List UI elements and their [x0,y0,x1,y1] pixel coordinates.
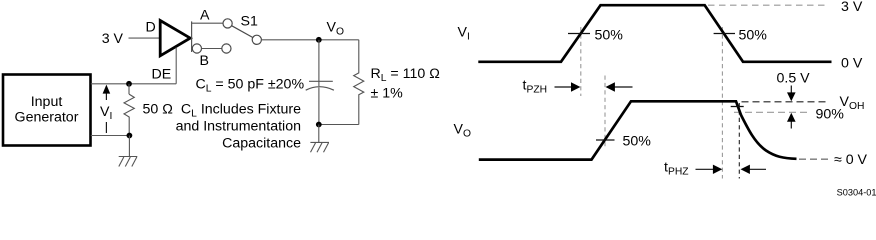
tick: VO decay measure point [731,106,744,108]
svg-text:CL = 50 pF ±20%: CL = 50 pF ±20% [196,77,305,95]
svg-text:≈ 0 V: ≈ 0 V [834,152,868,168]
dashed line: approx 0V level (gray) [799,158,829,160]
wire: output bar at driver tip [191,21,193,52]
waveform VO trace [479,101,797,159]
svg-text:RL = 110 Ω: RL = 110 Ω [371,66,440,84]
svg-text:90%: 90% [816,107,845,123]
node: junction bottom of 50 ohm resistor [126,133,132,139]
svg-text:DE: DE [152,67,172,83]
svg-text:VO: VO [327,20,344,38]
dashed line: VO disable vertical (dark) [738,103,740,179]
svg-text:D: D [146,20,156,36]
wire: 3V to driver input [129,37,160,39]
svg-text:50%: 50% [595,28,624,44]
svg-text:B: B [200,53,209,69]
dashed line: 90% level (gray) [734,111,809,113]
dimension arrow tPZH left [555,82,581,91]
svg-text:tPZH: tPZH [523,77,548,95]
svg-text:50%: 50% [623,134,652,150]
svg-text:and Instrumentation: and Instrumentation [176,119,301,135]
switch S1 arm [232,26,253,38]
arrow VI (input voltage) [98,85,113,133]
svg-text:Capacitance: Capacitance [222,136,301,152]
svg-text:S1: S1 [241,14,258,30]
switch contact B circle (right) [222,44,231,53]
waveform VI trace [478,5,831,62]
dashed line: VO rise 50% vertical (gray) [604,76,606,150]
tick: VI rise 50% [568,33,590,35]
svg-text:Input: Input [31,94,63,110]
dimension arrow tPHZ left [696,165,723,174]
wire: bottom of cap to bottom of RL [319,124,359,126]
svg-text:tPHZ: tPHZ [664,160,689,178]
svg-text:VI: VI [458,25,470,43]
svg-text:VO: VO [454,122,471,140]
svg-text:50%: 50% [739,28,768,44]
svg-text:0 V: 0 V [841,56,863,72]
dimension arrow tPZH right [606,82,633,91]
wire: bar to contact A [192,22,223,24]
dashed line: VI rise 50% vertical (gray) [580,27,582,96]
input generator box [3,75,91,146]
svg-text:Generator: Generator [15,110,79,126]
wire: pole to VO node to RL corner [261,39,358,41]
resistor 50 ohm [124,84,173,136]
node VO junction [316,37,322,43]
capacitor CL [306,40,334,125]
note text CL includes fixture [176,102,302,152]
resistor RL [354,40,364,125]
switch contact A circle [223,19,232,28]
svg-text:3 V: 3 V [841,0,863,15]
node: bottom junction [316,122,322,128]
svg-text:50 Ω: 50 Ω [143,102,173,118]
dimension arrow up to 90% [787,113,796,129]
svg-text:S0304-01: S0304-01 [837,188,876,197]
op-amp driver triangle U1 [160,21,190,56]
wire: generator top output to DE corner [91,83,176,85]
dimension arrow down to VOH [787,86,796,102]
svg-text:CL Includes Fixture: CL Includes Fixture [181,102,301,120]
wire: between B contacts [202,48,222,50]
svg-text:0.5 V: 0.5 V [777,71,811,87]
dashed line: VI fall 50% vertical (gray) [721,27,723,179]
tick: VI fall 50% [714,33,735,35]
wire: DE enable line [175,48,177,84]
ground (right, below CL/RL) [310,125,329,153]
switch pole circle [252,35,261,44]
dimension arrow tPHZ right [741,165,767,174]
ground (left, below 50 ohm) [119,136,138,167]
dashed line: 3V level (gray) [708,4,828,6]
node: junction top of 50 ohm resistor [126,81,132,87]
svg-text:3 V: 3 V [102,31,124,47]
svg-text:± 1%: ± 1% [371,86,404,102]
switch contact B circle (left) [192,44,201,53]
tick: VO rise 50% [596,139,615,141]
dashed line: VOH level (dark) [742,101,830,103]
wire: generator bottom to resistor bottom [91,135,130,137]
svg-text:A: A [200,8,210,24]
